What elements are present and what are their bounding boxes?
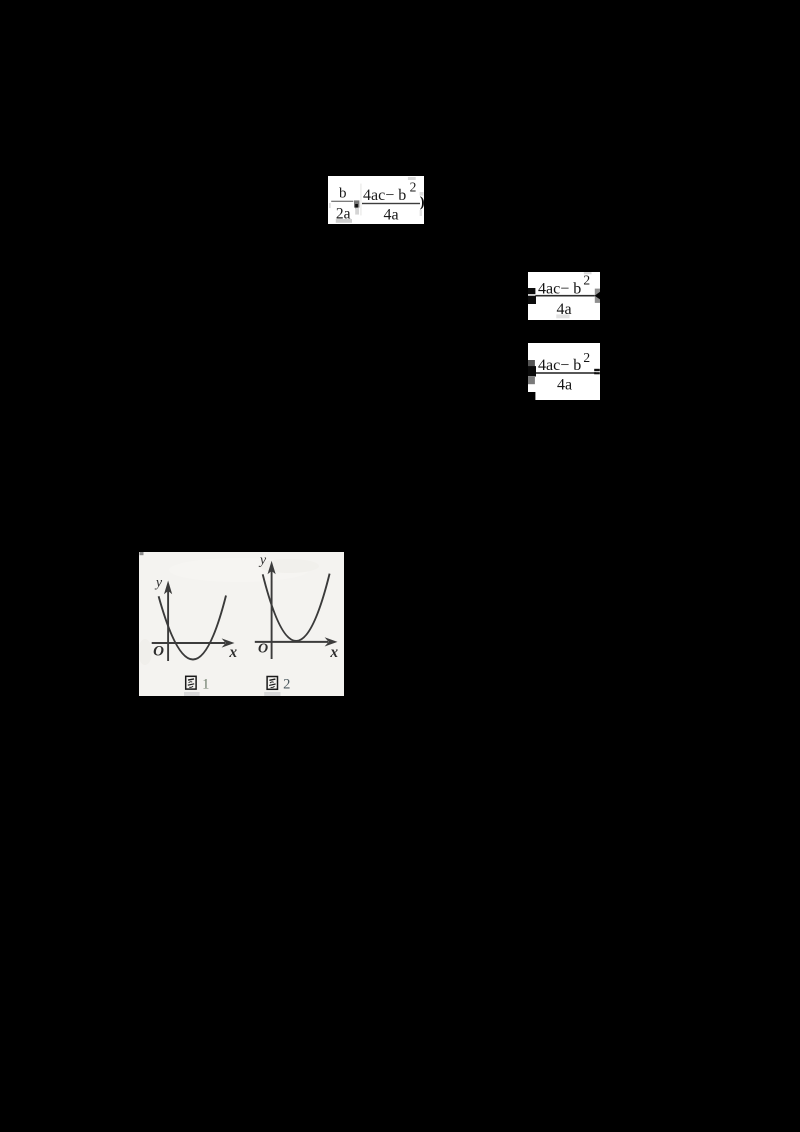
fraction bar b/2a	[331, 201, 353, 202]
graph 1 parabola	[159, 596, 226, 660]
svg-text:O: O	[153, 643, 164, 659]
svg-text:4a: 4a	[557, 377, 572, 394]
graph 2 parabola	[263, 574, 330, 641]
caption icon 图 for figure 1	[186, 676, 196, 689]
fraction bar	[535, 295, 594, 297]
svg-text:4ac− b: 4ac− b	[363, 187, 406, 204]
svg-text:1: 1	[202, 676, 209, 692]
svg-text:2: 2	[283, 676, 290, 692]
right edge gray block	[595, 289, 600, 303]
gray strip below caption 1	[184, 692, 200, 696]
gray strip below caption 2	[264, 692, 280, 696]
fraction bar	[535, 372, 596, 374]
seam between two formula images	[360, 184, 362, 216]
svg-text:y: y	[258, 553, 267, 568]
bottom-left black notch	[528, 392, 535, 400]
graph 2 y-axis arrowhead	[268, 561, 276, 575]
svg-text:4a: 4a	[556, 301, 571, 318]
svg-text:x: x	[329, 644, 338, 661]
dark gray square top-left corner	[140, 552, 144, 555]
formula image 3: (4ac-b^2)/4a right lower	[528, 343, 600, 400]
svg-text:y: y	[154, 576, 163, 591]
right edge = fragment	[594, 369, 600, 371]
svg-text:): )	[420, 194, 424, 210]
light gray artifact below 2a	[336, 219, 352, 223]
formula image 2: (4ac-b^2)/4a right upper	[528, 272, 600, 320]
light gray artifact left of 2a	[329, 203, 331, 208]
graph 1 x-axis arrowhead	[222, 638, 235, 647]
light gray artifact bottom center	[556, 314, 569, 318]
light gray artifact top right	[584, 272, 592, 274]
graph 2 y-axis	[271, 571, 273, 659]
graph 2 x-axis arrowhead	[325, 637, 338, 646]
svg-text:2: 2	[583, 350, 590, 365]
scanned figure with two parabolas	[139, 552, 344, 696]
comma separator	[354, 200, 359, 207]
svg-text:4ac− b: 4ac− b	[538, 357, 581, 374]
svg-text:2a: 2a	[336, 205, 351, 222]
right edge arrow fragment	[595, 292, 600, 300]
svg-text:b: b	[339, 186, 347, 202]
fraction bar (4ac-b2)/4a	[362, 203, 420, 204]
left edge fragments	[528, 360, 535, 367]
svg-text:2: 2	[583, 272, 590, 287]
light gray artifact top right	[408, 177, 416, 180]
caption icon 图 for figure 2	[267, 677, 277, 690]
svg-text:4a: 4a	[383, 207, 398, 224]
svg-text:x: x	[228, 644, 237, 661]
formula image 1: (-b/2a, (4ac-b^2)/4a) top center	[328, 176, 424, 224]
graph 1 y-axis arrowhead	[164, 581, 172, 595]
svg-text:O: O	[258, 642, 268, 657]
left edge text fragment	[528, 288, 535, 294]
faint scan smudges	[169, 558, 309, 582]
graph 1 x-axis	[152, 642, 225, 644]
graph 2 x-axis	[255, 641, 328, 643]
svg-text:2: 2	[410, 180, 417, 195]
graph 1 y-axis	[167, 589, 169, 661]
